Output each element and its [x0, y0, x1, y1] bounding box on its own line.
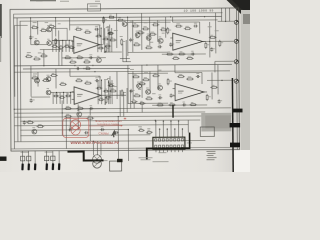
op-amp U1.2: [72, 87, 105, 105]
red stamp emblem circles: [71, 120, 81, 135]
black tape mark right edge 3: [230, 143, 240, 147]
transistor VT303: [158, 37, 163, 44]
resistor R109: [76, 55, 84, 59]
wire: [55, 18, 57, 37]
wire lower bus 4: [20, 120, 200, 121]
wire comb U1.2 out: [108, 80, 110, 104]
wire: [109, 25, 111, 52]
resistor R409: [156, 103, 164, 106]
wire: [149, 17, 151, 46]
resistor R206: [75, 78, 83, 81]
wire comb CH2: [56, 92, 58, 103]
svg-text:WWW.ЭЛЕКТРОСХЕМЫ.РУ: WWW.ЭЛЕКТРОСХЕМЫ.РУ: [71, 141, 120, 145]
wire: [123, 92, 125, 116]
capacitor C204: [109, 82, 114, 86]
transistor VT301: [135, 31, 140, 38]
wire stub: [133, 103, 135, 108]
resistor R214: [36, 124, 44, 127]
black connector pin P3: [34, 163, 37, 170]
label text: [98, 76, 101, 79]
wire lower bus 6: [20, 128, 128, 131]
label text: [130, 68, 134, 71]
wire comb U1.2 out: [101, 80, 103, 104]
IC U10 pin pads: [155, 139, 184, 148]
bottom annotation text: [139, 156, 153, 159]
IC U10 ref label: [187, 142, 192, 145]
wire: [127, 129, 129, 160]
wire comb U1 out: [107, 28, 109, 52]
wire: [126, 88, 128, 112]
wire comb CH2: [73, 92, 75, 103]
wire: [30, 18, 32, 45]
pin wire dot: [174, 129, 175, 130]
wire lower bus 7: [20, 134, 150, 137]
wire IC pin 6: [174, 128, 176, 137]
bold pcb outline mid: [147, 148, 191, 159]
junction: [225, 21, 226, 22]
resistor R115: [103, 17, 107, 24]
scanner dark mark left edge bottom: [0, 157, 7, 161]
label text: [208, 25, 212, 28]
scanner dark band top-right corner: [227, 0, 251, 22]
resistor Rc: [64, 44, 70, 47]
capacitor C301a: [129, 38, 134, 42]
resistor Rc: [69, 45, 75, 48]
resistor Rc: [65, 93, 71, 96]
wire: [221, 8, 223, 21]
resistor R302: [142, 26, 150, 30]
wire comb rail CH1: [52, 39, 73, 41]
red stamp rounded rectangle: [63, 118, 89, 137]
wire mid horizontal bus 3: [14, 71, 230, 72]
wire: [69, 18, 71, 31]
top margin marking: [60, 0, 69, 3]
junction: [146, 64, 147, 65]
wire IC pin 8: [181, 128, 183, 137]
title box T1 at top edge: [87, 4, 100, 11]
transistor VT401: [137, 82, 142, 89]
transistor VT103: [96, 56, 101, 63]
wire to pin 2: [28, 151, 30, 163]
label text: [98, 24, 101, 27]
capacitor C207: [84, 130, 88, 135]
junction: [43, 65, 44, 66]
wire to jack X4: [207, 79, 235, 81]
resistor Rc: [53, 94, 59, 97]
wire: [157, 20, 159, 41]
schematic border right double line: [235, 8, 238, 149]
capacitor C201: [30, 98, 35, 102]
wire: [214, 61, 216, 72]
resistor R404a: [138, 81, 146, 84]
scanner dark streak left edge top: [0, 4, 2, 38]
wire comb CH1: [55, 40, 57, 51]
junction: [92, 65, 93, 66]
capacitor C150: [76, 65, 80, 70]
capacitor C101: [29, 35, 34, 39]
wire: [132, 71, 134, 99]
wire: [116, 72, 118, 99]
output connector X4: [234, 79, 238, 83]
wire: [175, 71, 202, 73]
transistor VT402: [146, 88, 151, 95]
capacitor C301: [158, 44, 162, 49]
resistor R311: [178, 51, 186, 55]
capacitor C305: [210, 47, 215, 51]
wire to pin 3: [34, 151, 36, 163]
wire comb U1 out: [104, 28, 106, 52]
resistor R120: [25, 54, 33, 58]
wire feedback U2.2: [152, 104, 207, 106]
resistor R108: [64, 55, 72, 59]
resistor R406: [167, 78, 172, 85]
junction: [118, 116, 119, 117]
junction: [56, 92, 57, 93]
label text: [130, 20, 134, 23]
junction: [83, 68, 84, 69]
wire top bus 2: [20, 20, 218, 21]
black connector pin P4: [46, 163, 49, 170]
capacitor C405: [218, 99, 223, 103]
capacitor C304: [191, 51, 195, 56]
label text: [157, 21, 161, 24]
wire feedback U1.2: [62, 108, 106, 110]
resistor R305a: [137, 30, 145, 34]
wire: [199, 22, 201, 33]
resistor R117: [117, 18, 125, 22]
black connector pin P1: [21, 163, 24, 170]
wire comb CH2: [66, 92, 68, 103]
resistor R110: [69, 60, 77, 64]
resistor R112: [105, 46, 109, 53]
red stamp horizontal line: [89, 125, 122, 127]
wire comb U1 out: [100, 28, 102, 52]
wire: [217, 65, 219, 95]
wire: [209, 22, 211, 57]
label text: [47, 76, 51, 79]
pin wire dot: [167, 129, 168, 130]
wire bottom bus 8: [14, 140, 205, 141]
wire comb CH1: [58, 40, 60, 51]
wire IC pin 5: [170, 120, 172, 137]
bold pcb outline staircase left: [67, 151, 103, 160]
pin wire dot: [182, 129, 183, 130]
relay K1 box: [110, 161, 122, 171]
schematic border frame inner line: [14, 13, 223, 14]
module blank box CH1: [52, 28, 67, 40]
schematic border bottom inner line: [11, 147, 239, 149]
svg-text:10 100 1000 99: 10 100 1000 99: [184, 9, 214, 13]
junction: [62, 112, 63, 113]
resistor R305: [133, 42, 141, 46]
wire stub: [141, 104, 143, 112]
transistor VT101: [34, 38, 39, 45]
mouse cursor arrow artifact: [111, 130, 116, 138]
label text: [215, 29, 219, 32]
bottom annotation text 3: [153, 160, 169, 163]
wire U1 output rise: [103, 17, 105, 44]
transistor VT203: [32, 127, 37, 134]
resistor Ro: [104, 44, 111, 47]
red scan mark small dash: [124, 118, 126, 120]
top margin scratch line: [30, 0, 56, 2]
resistor Ro: [102, 37, 109, 40]
resistor Ro: [108, 83, 115, 86]
wire comb CH2: [59, 92, 61, 103]
junction: [62, 40, 63, 41]
junction: [93, 141, 94, 142]
pin wire dot: [170, 121, 171, 122]
label text: [106, 26, 110, 29]
wire left vertical bus 2: [16, 18, 19, 142]
wire: [30, 66, 32, 97]
resistor R312: [172, 56, 180, 60]
resistor R313: [186, 56, 194, 60]
wire feedback U2.1: [162, 53, 206, 55]
junction: [74, 65, 75, 66]
label text: [147, 127, 150, 130]
wire lower bus 5: [14, 125, 188, 126]
capacitor C404: [182, 102, 186, 107]
capacitor C401: [158, 95, 162, 100]
page right margin gray band: [241, 10, 250, 152]
wire: [229, 8, 231, 21]
resistor R207: [84, 81, 92, 84]
resistor R404: [133, 93, 141, 96]
output connector X1: [234, 20, 238, 24]
pin wire dot: [178, 121, 179, 122]
junction: [105, 104, 106, 105]
label text: [58, 22, 61, 25]
resistor R309: [184, 26, 192, 30]
wire mid horizontal bus 1: [14, 64, 232, 65]
wire to motor connector: [100, 141, 102, 155]
pin wire dot: [155, 121, 156, 122]
black connector pin P5: [52, 163, 55, 170]
junction: [101, 80, 102, 81]
label text: [114, 29, 118, 32]
resistor R201: [31, 76, 39, 79]
wire: [123, 61, 131, 63]
junction: [209, 41, 210, 42]
wire: [128, 102, 168, 104]
resistor Ro: [95, 34, 102, 37]
wire comb rail CH2: [50, 91, 74, 93]
top margin marking: [95, 0, 100, 3]
wire comb U1.2 out: [97, 80, 99, 104]
wire: [127, 65, 129, 104]
label text: [158, 69, 162, 72]
wire: [122, 44, 124, 62]
scanned circuit schematic page: [0, 0, 250, 172]
resistor R401: [132, 74, 140, 77]
wire lower bus 3: [14, 116, 231, 117]
wire: [201, 72, 203, 83]
wire vertical drop: [69, 117, 71, 130]
label text: [120, 35, 123, 38]
junction: [108, 82, 109, 83]
wire: [61, 49, 63, 65]
svg-text:техника и схемы: техника и схемы: [97, 122, 119, 126]
wire: [211, 72, 213, 99]
resistor R408: [186, 77, 194, 80]
label text: [144, 71, 148, 74]
resistor R306: [145, 45, 153, 49]
wire comb CH2: [52, 92, 54, 103]
junction: [128, 129, 129, 130]
wire CH4 top rail: [128, 72, 168, 74]
resistor R402: [142, 77, 150, 80]
junction: [55, 40, 56, 41]
IC pin annotation left: [146, 132, 150, 135]
wire: [187, 120, 189, 132]
capacitor C206: [68, 127, 72, 132]
resistor R314: [205, 42, 209, 49]
capacitor C209: [114, 129, 118, 134]
resistor R212: [121, 89, 126, 96]
label text: [107, 77, 111, 80]
resistor R307: [167, 27, 171, 34]
label text: [113, 85, 117, 88]
resistor R102: [40, 28, 48, 32]
junction: [221, 80, 222, 81]
wire comb U1.2 out: [111, 80, 113, 104]
junction: [127, 17, 128, 18]
transistor VT204: [77, 110, 82, 117]
resistor Ro: [97, 46, 104, 49]
wire: [99, 25, 101, 36]
wire: [37, 21, 39, 34]
black tape mark right edge 2: [230, 123, 241, 127]
wire: [132, 20, 134, 51]
junction: [63, 92, 64, 93]
resistor R413: [210, 85, 218, 88]
label text: [138, 88, 141, 91]
text in title box: [90, 5, 98, 8]
wire: [127, 17, 129, 56]
resistor R205: [59, 82, 67, 85]
junction: [170, 16, 171, 17]
wire: [141, 13, 143, 50]
wire: [225, 8, 227, 21]
resistor R417: [146, 130, 153, 133]
wire: [117, 117, 119, 160]
resistor R203: [50, 73, 58, 76]
resistor R211: [109, 89, 117, 92]
resistor R407: [177, 74, 185, 77]
resistor Rc: [52, 44, 58, 47]
op-amp U1.1: [71, 36, 103, 53]
label text: [162, 32, 165, 35]
resistor R114: [121, 38, 125, 45]
wire: [157, 65, 159, 90]
junction: [103, 17, 104, 18]
connector box on gray block: [200, 127, 214, 137]
resistor R316: [219, 40, 223, 47]
wire vertical drop: [77, 117, 79, 130]
wire vertical drop through stamp area: [65, 117, 67, 149]
wire CH3 top rail: [128, 21, 171, 23]
capacitor C202: [95, 77, 99, 82]
red line arrowhead: [121, 125, 123, 127]
wire: [174, 65, 176, 73]
gray scan shadow block right-center: [201, 113, 231, 132]
resistor R415: [139, 101, 146, 104]
resistor R414: [131, 99, 138, 102]
wire: [141, 65, 143, 98]
transistor VT102: [47, 25, 52, 32]
resistor R122: [40, 53, 48, 57]
page tone variations (scan): [0, 0, 250, 172]
transistor VT403: [158, 84, 163, 91]
wire to jack X3: [215, 60, 235, 62]
wire comb CH2: [63, 92, 65, 103]
wire: [43, 50, 45, 66]
wire: [128, 51, 168, 53]
resistor R208: [64, 106, 72, 109]
resistor Rc: [58, 45, 64, 48]
capacitor C208: [100, 126, 104, 131]
connector pin header group 2 boxes: [45, 156, 49, 161]
wire lower bus 1: [14, 108, 231, 109]
resistor R202: [42, 78, 50, 81]
op-amp U2.2: [173, 83, 208, 100]
junction: [70, 92, 71, 93]
junction: [30, 17, 31, 18]
junction: [155, 120, 156, 121]
wire IC pin 1: [155, 120, 157, 137]
bold pcb outline right vertical: [189, 133, 191, 149]
wire: [215, 13, 217, 54]
resistor R411: [189, 102, 197, 105]
label text: [107, 25, 111, 28]
resistor R209: [76, 106, 84, 109]
resistor R315: [209, 35, 217, 39]
transistor VT203a: [46, 88, 51, 95]
label text: [33, 73, 37, 76]
wire: [172, 17, 174, 22]
wire: [58, 30, 60, 65]
wire: [119, 90, 121, 116]
transistor VT103a: [47, 39, 52, 46]
wire: [70, 24, 100, 26]
resistor R412: [206, 94, 211, 101]
resistor Ro: [105, 95, 112, 98]
label text: [138, 125, 142, 128]
wire: [130, 90, 132, 108]
resistor R216: [86, 116, 94, 119]
page bottom-right white corner: [234, 150, 250, 172]
wire IC pin 3: [162, 120, 164, 137]
resistor Rc: [59, 95, 65, 98]
capacitor C203: [89, 105, 93, 110]
wire: [149, 71, 151, 93]
wire: [55, 69, 57, 89]
motor label: [104, 159, 108, 162]
black connector pin P6: [58, 163, 61, 170]
junction: [55, 17, 56, 18]
wire comb CH1: [52, 40, 54, 51]
junction: [69, 40, 70, 41]
transistor VT104: [122, 20, 127, 27]
capacitor C205: [23, 120, 28, 124]
resistor R303: [152, 22, 160, 26]
resistor R107: [84, 30, 92, 34]
pin group 1 numbers: [20, 151, 28, 154]
wire: [99, 76, 101, 87]
wire left vertical bus 3: [19, 21, 22, 141]
pin wire dot: [163, 121, 164, 122]
